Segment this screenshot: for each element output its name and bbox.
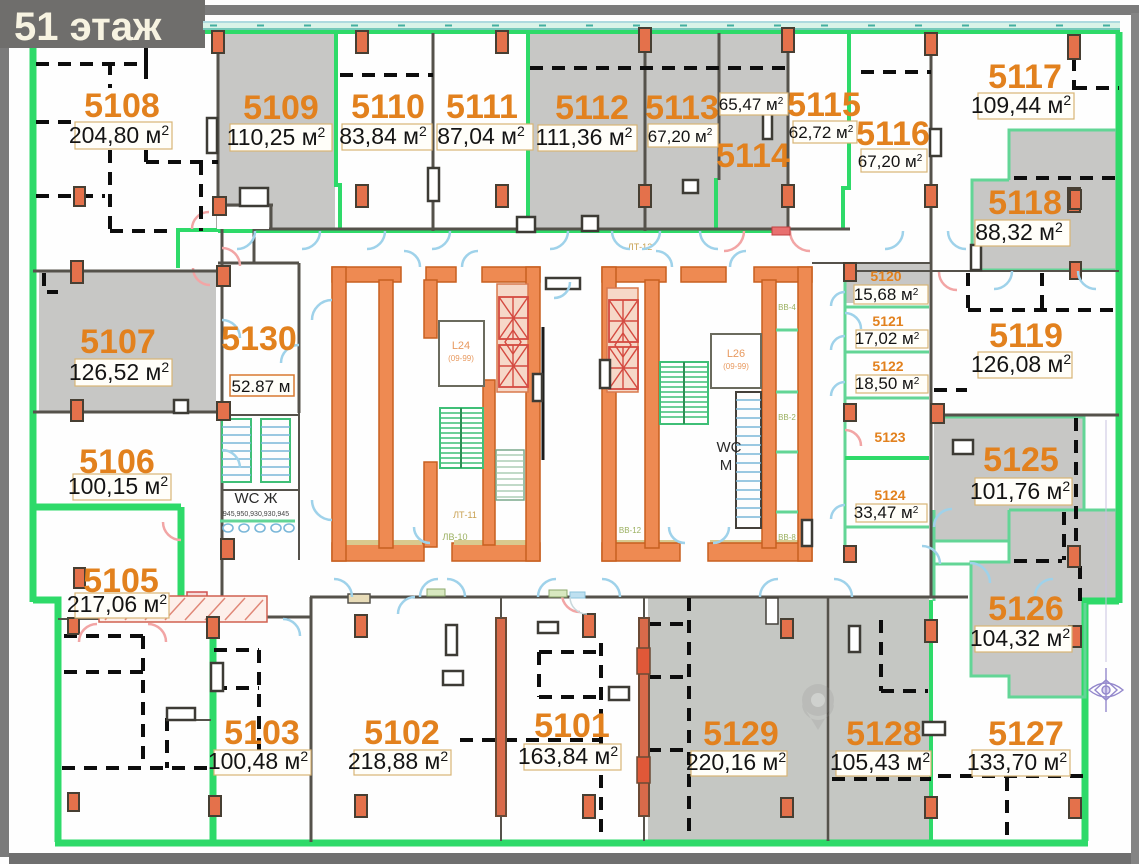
columns row top	[212, 31, 224, 53]
room 5120 area box	[854, 285, 928, 304]
vent 5103 green wall	[211, 663, 223, 691]
dashed 5129 vert	[687, 598, 691, 840]
svg-text:М: М	[720, 457, 733, 474]
svg-text:100,15 м2: 100,15 м2	[68, 473, 169, 499]
vent 5114-5115 wall	[763, 112, 772, 139]
svg-text:5110: 5110	[351, 88, 425, 126]
dashed 5108 vert lower	[108, 150, 112, 231]
dashed 5105 lower vert	[141, 636, 145, 768]
core left inner wall 2b	[424, 462, 437, 547]
stairs left treads	[440, 413, 483, 463]
core right block top bar	[602, 267, 812, 282]
svg-text:87,04 м2: 87,04 м2	[437, 123, 525, 149]
room 5110 area box	[342, 124, 432, 150]
WC M stall ticks	[736, 400, 761, 517]
svg-text:15,68 м2: 15,68 м2	[854, 285, 919, 304]
stairs right mid rail	[683, 362, 685, 424]
WC ZH sinks line	[220, 520, 295, 523]
door arcs left corridor	[222, 300, 332, 520]
svg-text:5102: 5102	[364, 714, 440, 752]
core left block bottom bar	[332, 543, 540, 561]
room 5121 area box	[856, 330, 928, 348]
svg-text:110,25 м2: 110,25 м2	[227, 124, 326, 150]
vent 5125	[953, 440, 973, 454]
wall 5116 5117 bottom corridor	[850, 270, 1119, 272]
wall 5119 bottom	[931, 414, 1119, 417]
elevator R1 cross	[609, 300, 638, 342]
elevator red diamond right	[615, 333, 631, 357]
column 5108 interior	[74, 187, 85, 206]
vent 5105 lower horiz	[167, 708, 195, 720]
red door 5105 corridor	[187, 592, 207, 602]
stairs right outline	[660, 362, 708, 424]
orange strip2 stem top	[643, 598, 645, 618]
room 5124 area box	[856, 504, 927, 522]
column 5118	[1070, 190, 1081, 209]
dashed 5105 lower vert2	[165, 718, 169, 768]
green wall 5113-5114 step	[714, 178, 718, 230]
wall annex right vertical	[930, 250, 933, 597]
window band lines	[203, 21, 1120, 23]
elevator L2 box	[499, 345, 528, 387]
dashed 5103 vert	[257, 650, 261, 771]
red hatch wall above 5103	[99, 596, 267, 622]
right column small room dividers	[776, 330, 798, 512]
dashed left part of corridor wall	[110, 229, 176, 233]
columns annex	[844, 263, 856, 281]
vent 5111-5112 wall bottom	[517, 217, 535, 232]
shaft hatch right of stairs	[496, 450, 524, 500]
dashed 5103 bottom	[214, 769, 310, 773]
dashed 5105 lower horiz 2	[64, 670, 143, 674]
dashed 5129 top step	[648, 622, 689, 626]
svg-text:ВВ-8: ВВ-8	[778, 533, 796, 542]
svg-text:ЛТ-11: ЛТ-11	[453, 510, 477, 520]
dashed 5117 horiz	[1074, 86, 1119, 90]
vestibule 5130 left upper wall	[253, 229, 256, 263]
gray fill room 5107	[39, 272, 216, 411]
L24 room box	[439, 321, 484, 386]
dashed 5108 vert a	[144, 66, 148, 86]
green boundary right lower	[1085, 601, 1119, 841]
svg-text:204,80 м2: 204,80 м2	[69, 122, 170, 148]
purple eye ornament	[1089, 668, 1123, 712]
room 5115 area box	[793, 121, 857, 143]
door arcs annex	[845, 430, 861, 446]
wall 5130 bottom / wc top	[222, 489, 299, 491]
door arcs bottom corridor	[334, 546, 1053, 597]
columns right column rooms	[1068, 546, 1080, 567]
door arc 5103 top	[283, 619, 300, 636]
svg-text:18,50 м2: 18,50 м2	[855, 374, 920, 393]
green wall 5114-5115... 5115-5116	[843, 32, 849, 228]
gray fill room 5125	[934, 417, 1084, 541]
svg-text:109,44 м2: 109,44 м2	[971, 92, 1072, 118]
green annex divider 3	[845, 397, 929, 400]
L26 room box	[711, 334, 761, 388]
green wall 5111-5112	[526, 32, 530, 230]
svg-text:133,70 м2: 133,70 м2	[967, 749, 1068, 775]
room 5106 area box	[73, 474, 171, 500]
core left inner wall 3	[483, 380, 495, 545]
wall 5114-5115	[787, 33, 790, 231]
vent core left right-wall	[533, 374, 542, 401]
svg-text:(09-99): (09-99)	[448, 354, 474, 363]
wall top rooms bottom	[252, 228, 850, 231]
wall corridor left vertical	[221, 229, 224, 597]
vent 5116-5117 wall	[930, 129, 941, 156]
columns corridor bottom left	[221, 539, 234, 559]
dashed 5126 horiz	[1014, 559, 1062, 563]
svg-text:5126: 5126	[988, 590, 1064, 628]
svg-text:126,52 м2: 126,52 м2	[69, 359, 170, 385]
svg-text:5103: 5103	[224, 714, 300, 752]
room 5128 area box	[836, 751, 931, 776]
dashed 5108 horiz lower	[36, 194, 105, 198]
svg-text:218,88 м2: 218,88 м2	[348, 748, 449, 774]
room 5102 area box	[354, 750, 451, 775]
core right inner wall 1	[645, 280, 659, 548]
svg-text:217,06 м2: 217,06 м2	[67, 591, 168, 617]
svg-text:83,84 м2: 83,84 м2	[339, 123, 427, 149]
svg-text:100,48 м2: 100,48 м2	[208, 748, 309, 774]
room 5116 area box	[861, 149, 927, 172]
vent 5112 bottom	[582, 216, 598, 231]
faint door arc 5101	[570, 597, 587, 614]
dashed 5119 horiz2	[934, 388, 967, 392]
elevator R1 box	[609, 300, 638, 342]
dashed 5105 lower bottom	[62, 766, 211, 770]
orange wall strip 5102-5101	[496, 618, 506, 816]
wall 5108 solid top stub	[144, 48, 148, 66]
dashed 5129 horiz bottom	[648, 748, 689, 752]
core left block left wall	[332, 267, 346, 561]
svg-text:33,47 м2: 33,47 м2	[854, 503, 919, 522]
pink arc corridor left b	[193, 268, 210, 285]
door arcs pink left	[79, 248, 240, 642]
vent 5128 green wall	[923, 722, 945, 735]
svg-text:ВВ-12: ВВ-12	[619, 526, 642, 535]
title box 51 etazh	[0, 0, 205, 48]
columns row mid (y~190)	[213, 197, 226, 215]
dashed 5129 horiz top	[648, 675, 689, 679]
wall 5103-5102	[310, 597, 313, 842]
green vent corridor wall	[427, 589, 445, 596]
green bottom boundary	[55, 840, 1088, 847]
svg-text:5125: 5125	[983, 441, 1059, 479]
dashed 5126 vert left	[1062, 512, 1066, 560]
dashed 5102 horiz mid	[460, 738, 601, 742]
blue door on 5101 top wall	[570, 592, 585, 598]
vestibule white area	[217, 207, 269, 229]
green wall 5105 right	[178, 507, 185, 601]
green horiz 5126 top corridor	[934, 563, 971, 566]
stairs left mid rail	[460, 408, 462, 468]
orange strip2 stem bottom	[643, 816, 645, 841]
svg-text:17,02 м2: 17,02 м2	[855, 329, 920, 348]
dashed 5125 vert	[1074, 418, 1078, 560]
gray fill room 5112	[528, 30, 645, 230]
svg-text:5108: 5108	[84, 87, 160, 125]
dashed 5102 vert	[599, 643, 603, 840]
green wall 5109-5110	[336, 32, 340, 230]
dashed 5108 vert b	[144, 150, 148, 162]
green corridor wall segment	[176, 228, 254, 232]
green annex divider 4	[845, 456, 929, 460]
dashed 5102 notch	[539, 652, 601, 697]
door arcs 5126 entry	[934, 509, 990, 583]
WC ZH stall ticks right	[261, 427, 290, 475]
columns bottom section	[207, 617, 219, 638]
vent 5113	[683, 180, 698, 193]
svg-text:5111: 5111	[446, 88, 518, 126]
WC ZH sinks	[223, 524, 294, 532]
svg-text:67,20 м2: 67,20 м2	[858, 152, 923, 171]
wall 5113 right	[718, 33, 721, 180]
room 5105 area box	[75, 593, 169, 618]
door arcs top corridor	[237, 231, 1096, 289]
tan box at corridor wall left	[348, 594, 370, 603]
window band dashes	[210, 25, 1118, 27]
room 5112 area box	[538, 125, 637, 151]
watermark pin faint	[802, 684, 834, 730]
wall wc area right	[298, 413, 300, 560]
faint survey line right	[1105, 420, 1107, 662]
dashed 5108 horizontal top	[36, 62, 146, 66]
box 5109 bottom	[240, 188, 268, 206]
svg-text:WC Ж: WC Ж	[234, 490, 277, 507]
svg-text:ВВ-2: ВВ-2	[778, 413, 796, 422]
dashed 5128 horiz2	[832, 777, 931, 781]
green wall 5103 left	[210, 617, 217, 842]
dashed 5126 vert right	[1078, 566, 1082, 601]
wall 5107 top	[33, 270, 222, 273]
room 5114 area box	[720, 93, 788, 115]
wall wc top divider	[218, 414, 299, 416]
orange wall strip 5101-5129	[639, 618, 649, 816]
room 5103 area box	[214, 750, 311, 775]
svg-text:5128: 5128	[846, 715, 922, 753]
green outline 5125	[934, 417, 1084, 541]
room 5119 area box	[978, 352, 1072, 378]
column 5105	[74, 568, 85, 588]
svg-text:(09-99): (09-99)	[723, 362, 749, 371]
gray fill room 5126 polygon	[971, 510, 1116, 697]
core right block right wall	[798, 267, 812, 561]
dashed 5117 vert	[1072, 36, 1076, 90]
door arc 5123	[845, 313, 861, 329]
svg-text:5117: 5117	[988, 58, 1062, 96]
room 5117 area box	[978, 93, 1074, 119]
svg-text:5101: 5101	[534, 707, 610, 745]
vent core right left-wall	[600, 360, 610, 388]
frame right strip	[1131, 13, 1139, 864]
green outer boundary left	[30, 48, 37, 602]
svg-text:88,32 м2: 88,32 м2	[975, 219, 1063, 245]
wall 5105 lower step	[167, 719, 211, 721]
svg-text:5115: 5115	[787, 86, 861, 124]
wall 5103 top red	[97, 616, 310, 619]
svg-text:65,47 м2: 65,47 м2	[719, 95, 784, 114]
dashed 5108 horiz mid	[146, 160, 218, 164]
green wall 5105 top	[33, 504, 181, 511]
green top boundary line	[205, 30, 1120, 34]
door arcs pink top corridor	[562, 231, 810, 612]
svg-text:104,32 м2: 104,32 м2	[970, 625, 1071, 651]
WC ZH stall strip left	[222, 419, 251, 482]
wall 5129 right	[827, 597, 830, 841]
green annex wall left	[844, 264, 847, 560]
dashed corridor vert a	[966, 273, 970, 311]
vestibule 5109 sw wall	[215, 204, 273, 207]
elevator red diamond left	[505, 330, 521, 354]
core mid vent	[546, 278, 580, 289]
green outline 5118	[972, 130, 1116, 270]
dashed 5116 horiz	[861, 70, 931, 74]
wall 5116-5117	[930, 34, 933, 272]
elevator R2 box	[609, 347, 638, 389]
dashed 5108 top-left corner of 5107	[44, 273, 58, 292]
vent 5129 right wall	[849, 626, 860, 652]
svg-text:51 этаж: 51 этаж	[14, 5, 162, 49]
box 5107 bottom wall	[174, 400, 188, 413]
svg-text:L24: L24	[452, 340, 470, 352]
vent 5110-5111 wall	[428, 168, 439, 201]
gray fill room 5129	[648, 597, 826, 840]
svg-text:5119: 5119	[989, 317, 1063, 355]
svg-text:5123: 5123	[874, 429, 905, 445]
elevator R2 cross	[609, 347, 638, 389]
dashed 5127 vert	[1005, 778, 1009, 840]
room 5111 area box	[437, 124, 533, 150]
room 5108 area box	[75, 122, 172, 149]
svg-text:5107: 5107	[80, 323, 156, 361]
room 5113 area box	[648, 124, 718, 147]
green boundary step 5105	[33, 600, 58, 842]
dashed 5108 vert top	[108, 62, 112, 88]
door arcs core top	[404, 251, 746, 298]
green outer boundary right upper	[1116, 32, 1123, 603]
pink arc corridor left a	[192, 212, 209, 229]
svg-text:105,43 м2: 105,43 м2	[830, 749, 931, 775]
svg-text:5122: 5122	[872, 358, 903, 374]
room 5107 area box	[75, 359, 172, 386]
vent 5102 vertical	[446, 625, 457, 655]
vent 5109 left wall	[207, 118, 217, 153]
svg-text:5114: 5114	[716, 137, 790, 175]
core mid corridor wall	[542, 327, 545, 460]
columns 5107	[71, 261, 83, 283]
wall 5107 bottom	[33, 411, 222, 414]
dashed 5108 horiz small left	[36, 120, 72, 124]
frame top strip	[200, 5, 1139, 15]
room 5129 area box	[691, 751, 787, 776]
pink arc 5119 top	[939, 272, 957, 290]
core right block left wall	[602, 267, 616, 561]
core right block bottom bar	[602, 543, 812, 561]
green wall 5128 right	[929, 600, 933, 842]
dashed 5119 horiz	[968, 308, 1116, 312]
green annex divider 2	[845, 351, 929, 354]
dashed corridor vert b	[1040, 273, 1044, 311]
svg-text:L26: L26	[727, 348, 745, 360]
core left block right wall	[526, 267, 540, 561]
room 5126 area box	[975, 626, 1072, 652]
gray fill rooms 5113 5114	[645, 30, 788, 230]
dashed 5128 horiz	[881, 689, 928, 693]
svg-text:5109: 5109	[243, 89, 319, 127]
svg-text:111,36 м2: 111,36 м2	[536, 124, 633, 150]
wall 5108-5109	[217, 33, 220, 231]
WC ZH stall ticks left	[222, 427, 251, 475]
svg-text:5124: 5124	[874, 487, 905, 503]
vent 5101 horizontal	[609, 687, 629, 700]
elevator L1 box	[499, 297, 528, 339]
red door top corridor	[772, 227, 790, 235]
dashed 5105 lower horiz 1	[64, 634, 143, 638]
green vert 5126 corridor	[933, 510, 936, 601]
room 5130 area box	[230, 375, 294, 396]
blue door arc corridor down	[398, 597, 415, 614]
svg-text:52.87 м: 52.87 м	[232, 377, 291, 396]
svg-text:5113: 5113	[645, 89, 719, 127]
room 5125 area box	[975, 478, 1072, 505]
svg-text:62,72 м2: 62,72 м2	[789, 123, 854, 142]
svg-text:163,84 м2: 163,84 м2	[518, 743, 619, 769]
dashed 5128 vert	[879, 620, 883, 691]
stairs right treads	[660, 367, 708, 417]
svg-text:WC: WC	[717, 439, 742, 456]
svg-text:101,76 м2: 101,76 м2	[970, 478, 1071, 504]
core right inner wall 2	[762, 280, 776, 548]
wall 5112-5113	[644, 33, 647, 231]
green outline 5126	[971, 510, 1116, 697]
svg-text:126,08 м2: 126,08 м2	[971, 351, 1072, 377]
gray fill room 5118 upper	[1009, 130, 1116, 180]
room 5127 area box	[972, 750, 1070, 776]
vent 5118 left	[971, 245, 981, 270]
door arcs annex rooms	[831, 292, 845, 519]
core elevator shaft bg left	[497, 284, 528, 392]
wall corridor bottom rooms top	[310, 596, 968, 599]
svg-text:220,16 м2: 220,16 м2	[686, 749, 787, 775]
core elevator shaft bg right	[607, 288, 638, 392]
wall 5110-5111	[432, 33, 435, 231]
room 5109 area box	[230, 124, 332, 151]
gray fill room 5109	[218, 34, 335, 230]
svg-text:5120: 5120	[870, 268, 901, 284]
window band top	[203, 21, 1120, 30]
dashed 5108 vert right	[199, 162, 203, 231]
svg-text:ВВ-4: ВВ-4	[778, 303, 796, 312]
room 5101 area box	[524, 744, 621, 770]
5129 white notch	[766, 598, 778, 624]
core left block top bar	[332, 267, 540, 282]
svg-text:5118: 5118	[988, 184, 1062, 222]
core left inner wall 1	[379, 280, 393, 548]
gray fill room 5128	[830, 597, 929, 840]
dashed 5103 rect top	[214, 648, 259, 652]
room 5122 area box	[856, 375, 928, 393]
green vent on 5101 top wall	[549, 590, 567, 597]
dashed 5103 rect mid	[214, 686, 259, 690]
wall 5130 right	[298, 263, 301, 413]
vent 5102 horizontal	[443, 671, 463, 685]
orange wall strip stem bottom	[500, 816, 502, 841]
elevator L2 cross	[499, 345, 528, 387]
svg-text:945,950,930,930,945: 945,950,930,930,945	[223, 511, 289, 518]
core left inner wall 2a	[424, 280, 437, 338]
